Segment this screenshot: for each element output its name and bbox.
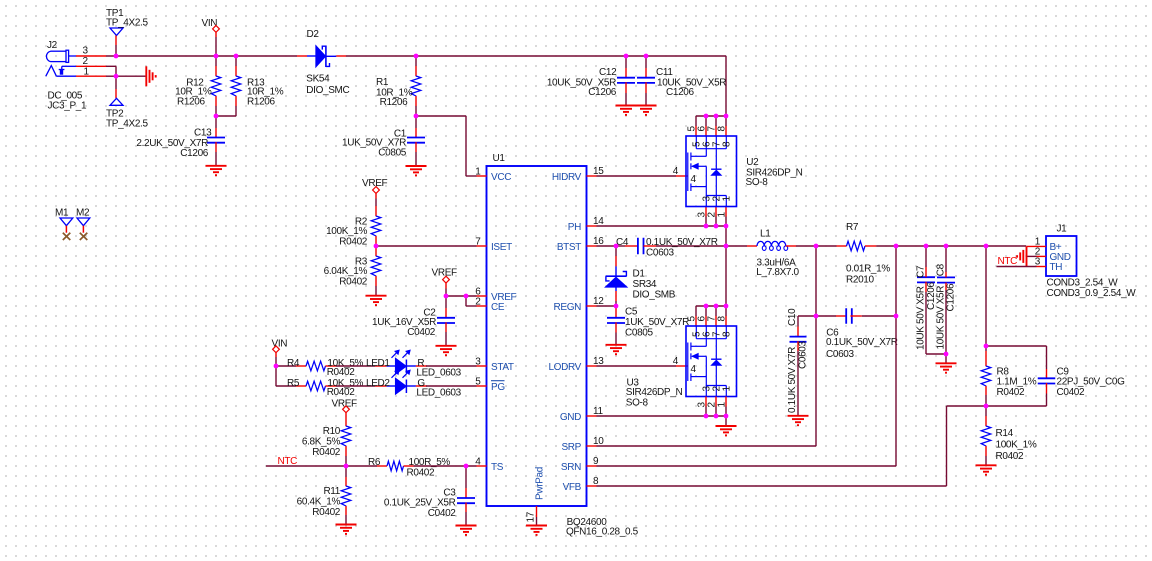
ground (C12) xyxy=(616,105,637,107)
svg-text:4: 4 xyxy=(691,364,697,375)
svg-text:R7: R7 xyxy=(846,222,859,233)
svg-text:PwrPad: PwrPad xyxy=(535,467,546,500)
resistor R6 (100R 5%) xyxy=(368,457,450,479)
resistor R4 (10K 5%) xyxy=(276,358,364,378)
svg-text:SO-8: SO-8 xyxy=(746,177,769,188)
wire VIN rail (D2 to corner) xyxy=(346,55,726,57)
svg-text:C1206: C1206 xyxy=(946,283,957,312)
svg-text:1: 1 xyxy=(475,167,481,178)
svg-text:10: 10 xyxy=(593,436,604,447)
svg-text:11: 11 xyxy=(593,406,603,417)
svg-text:R4: R4 xyxy=(287,358,300,369)
wire ISET xyxy=(376,245,477,247)
svg-text:22PJ_50V_C0G: 22PJ_50V_C0G xyxy=(1057,376,1126,387)
svg-text:R1: R1 xyxy=(376,77,389,88)
wire U3 source pins to GND xyxy=(597,415,727,417)
svg-text:R0402: R0402 xyxy=(312,447,341,458)
svg-text:LED1: LED1 xyxy=(366,358,390,369)
svg-text:DIO_SMC: DIO_SMC xyxy=(306,85,349,96)
U1 pin 3 STAT xyxy=(475,357,514,373)
ground (R11) xyxy=(336,524,357,526)
svg-text:R1206: R1206 xyxy=(380,97,409,108)
U1 pin 15 HIDRV xyxy=(552,166,604,183)
U1 pin 17 PwrPad xyxy=(526,467,546,525)
diode D2 (SK54 schottky) xyxy=(297,29,350,96)
svg-text:C0603: C0603 xyxy=(798,340,809,369)
svg-text:TP_4X2.5: TP_4X2.5 xyxy=(106,118,148,129)
svg-text:L1: L1 xyxy=(760,229,771,240)
wire REGN xyxy=(597,305,617,307)
wire J2 pin 3 stub xyxy=(76,55,106,57)
svg-text:C1206: C1206 xyxy=(180,148,209,159)
svg-text:C12: C12 xyxy=(599,67,617,78)
svg-text:DIO_SMB: DIO_SMB xyxy=(633,289,676,300)
power port VREF (R2) xyxy=(362,178,388,199)
capacitor C11 (10uF) xyxy=(637,56,726,106)
svg-text:C13: C13 xyxy=(194,127,212,138)
svg-text:8: 8 xyxy=(722,141,733,147)
svg-text:C1206: C1206 xyxy=(588,87,617,98)
wire VREF to pin xyxy=(445,289,447,297)
wire VIN rail (J2 to D2) xyxy=(106,55,297,57)
svg-text:0.1UK 50V X7R: 0.1UK 50V X7R xyxy=(787,347,798,413)
svg-text:HIDRV: HIDRV xyxy=(552,172,582,183)
svg-text:100K_1%: 100K_1% xyxy=(996,439,1037,450)
resistor R12 (10R 1%) xyxy=(175,56,221,116)
svg-text:3: 3 xyxy=(1035,256,1041,267)
capacitor C7 (10uF output) xyxy=(916,246,947,354)
wire VIN rail corner down to U2 xyxy=(725,56,727,116)
svg-text:1: 1 xyxy=(721,386,732,392)
resistor R14 (100K 1%) xyxy=(981,406,1037,465)
wire battery divider tap xyxy=(985,246,987,346)
svg-text:QFN16_0.28_0.5: QFN16_0.28_0.5 xyxy=(566,526,639,537)
svg-text:C1206: C1206 xyxy=(666,87,695,98)
wire node to ground spur xyxy=(116,75,146,77)
svg-text:14: 14 xyxy=(593,216,604,227)
U1 pin 16 BTST xyxy=(557,236,604,253)
wire NTC xyxy=(266,465,346,467)
transistor U3 (SIR426DP N-MOSFET) xyxy=(626,316,737,409)
capacitor C1 (1uF) xyxy=(342,116,425,166)
svg-text:15: 15 xyxy=(593,166,604,177)
svg-text:0.1UK_50V_X7R: 0.1UK_50V_X7R xyxy=(826,337,898,348)
capacitor C12 (10uF) xyxy=(547,56,635,106)
wire U2 source pins to PH xyxy=(597,225,727,227)
svg-text:10UK 50V X5R: 10UK 50V X5R xyxy=(916,286,927,350)
U1 pin 4 TS xyxy=(475,457,503,473)
svg-text:2: 2 xyxy=(83,56,89,67)
ground (C5) xyxy=(606,344,627,346)
svg-text:TS: TS xyxy=(491,462,504,473)
U1 pin 14 PH xyxy=(568,216,604,233)
U1 pin 13 LODRV xyxy=(548,356,604,373)
svg-text:PH: PH xyxy=(568,222,581,233)
capacitor C13 (2.2uF) xyxy=(136,116,225,166)
svg-text:VCC: VCC xyxy=(491,172,511,183)
svg-text:C0805: C0805 xyxy=(378,147,407,158)
resistor R11 (60.4K 1%) xyxy=(297,466,351,525)
wire CE branch xyxy=(465,296,467,306)
resistor R5 (10K 5%) xyxy=(276,378,364,398)
capacitor C5 (1uF) xyxy=(607,306,689,345)
wire NTC to R6 xyxy=(346,465,377,467)
svg-text:M1: M1 xyxy=(55,207,69,218)
svg-text:STAT: STAT xyxy=(491,362,514,373)
ground (J1 GND, rotated) xyxy=(1026,246,1028,266)
resistor R2 (100K 1%) xyxy=(326,199,381,248)
svg-text:8: 8 xyxy=(716,316,727,322)
svg-text:R10: R10 xyxy=(323,426,341,437)
svg-text:U1: U1 xyxy=(493,153,506,164)
svg-text:D2: D2 xyxy=(307,29,320,40)
svg-text:SR34: SR34 xyxy=(633,279,657,290)
resistor R13 (10R 1%) xyxy=(231,56,284,116)
svg-text:C0402: C0402 xyxy=(1057,387,1086,398)
ground (C2) xyxy=(436,345,457,347)
U1 pin 10 SRP xyxy=(561,436,604,453)
svg-text:PG: PG xyxy=(491,382,505,393)
J1 pin 3 xyxy=(1035,256,1046,267)
power port VREF (C2) xyxy=(432,268,458,289)
svg-text:CE: CE xyxy=(491,302,505,313)
wire VIN to R4/R5 xyxy=(275,357,277,366)
capacitor C2 (1uF 16V) xyxy=(372,296,455,346)
svg-text:4: 4 xyxy=(673,356,679,367)
wire J2 pin1 to node xyxy=(106,75,116,77)
svg-text:GND: GND xyxy=(560,412,581,423)
svg-text:NTC: NTC xyxy=(998,256,1018,267)
svg-text:M2: M2 xyxy=(76,207,90,218)
LED LED2 (green) xyxy=(366,370,462,398)
svg-text:R0402: R0402 xyxy=(339,236,368,247)
svg-text:L_7.8X7.0: L_7.8X7.0 xyxy=(756,267,799,278)
svg-text:9: 9 xyxy=(593,456,599,467)
svg-text:TP_4X2.5: TP_4X2.5 xyxy=(106,17,148,28)
svg-text:R0402: R0402 xyxy=(339,276,368,287)
svg-text:R11: R11 xyxy=(323,486,340,497)
U1 pin 5 PG xyxy=(475,377,505,393)
svg-text:VREF: VREF xyxy=(432,268,458,279)
svg-text:4: 4 xyxy=(691,174,697,185)
svg-text:3: 3 xyxy=(83,45,89,56)
svg-text:LED_0603: LED_0603 xyxy=(416,388,461,399)
svg-text:SO-8: SO-8 xyxy=(626,397,649,408)
svg-text:1: 1 xyxy=(716,212,727,218)
svg-text:R0402: R0402 xyxy=(997,387,1026,398)
power port VIN xyxy=(202,18,220,37)
ground (U3 source) xyxy=(716,425,737,427)
svg-text:D1: D1 xyxy=(633,268,646,279)
svg-text:C0603: C0603 xyxy=(646,247,675,258)
U1 pin 9 SRN xyxy=(561,456,599,473)
ground (C13) xyxy=(206,165,227,167)
U1 pin 8 VFB xyxy=(563,476,599,493)
resistor R8 (1.1M 1%) xyxy=(981,346,1037,406)
svg-text:1.1M_1%: 1.1M_1% xyxy=(997,376,1037,387)
svg-text:R14: R14 xyxy=(996,428,1014,439)
svg-text:6.8K_5%: 6.8K_5% xyxy=(302,436,341,447)
connector J1 (battery COND3) xyxy=(1046,223,1136,298)
svg-text:COND3_0.9_2.54_W: COND3_0.9_2.54_W xyxy=(1047,288,1137,299)
wire STAT xyxy=(426,365,477,367)
wire SRN vertical xyxy=(895,246,897,466)
power port VREF (R10) xyxy=(332,398,358,416)
wire GND spur xyxy=(725,416,727,426)
svg-text:8: 8 xyxy=(716,126,727,132)
wire VIN port down xyxy=(215,37,217,56)
wire HIDRV xyxy=(597,175,677,177)
wire node down to TP2 xyxy=(115,76,117,89)
wire SRN xyxy=(597,465,897,467)
J1 pin 1 xyxy=(1027,236,1047,247)
ground (R3) xyxy=(366,295,387,297)
svg-text:SK54: SK54 xyxy=(306,74,330,85)
svg-text:SRP: SRP xyxy=(561,442,581,453)
svg-text:R1206: R1206 xyxy=(177,97,206,108)
svg-text:R5: R5 xyxy=(287,378,300,389)
svg-text:R1206: R1206 xyxy=(247,97,276,108)
ground (C11) xyxy=(636,105,657,107)
svg-text:C7: C7 xyxy=(916,265,927,278)
svg-text:12: 12 xyxy=(593,296,604,307)
inductor L1 (3.3uH) xyxy=(726,229,816,279)
svg-text:R6: R6 xyxy=(368,457,381,468)
ground (R14) xyxy=(976,464,997,466)
svg-text:R0402: R0402 xyxy=(996,451,1025,462)
wire VFB vertical xyxy=(946,406,948,486)
svg-text:R0402: R0402 xyxy=(312,507,341,518)
svg-text:17: 17 xyxy=(526,511,537,522)
ground (J2 return, rotated) xyxy=(145,66,147,86)
svg-text:0.1UK_25V_X5R: 0.1UK_25V_X5R xyxy=(384,497,456,508)
U1 pin 12 REGN xyxy=(554,296,605,313)
wire R5 to LED2 xyxy=(336,385,375,387)
svg-text:C10: C10 xyxy=(787,308,798,326)
svg-text:NTC: NTC xyxy=(278,456,298,467)
U1 pin 6 VREF xyxy=(475,287,516,303)
svg-text:C8: C8 xyxy=(936,263,947,276)
svg-text:R0402: R0402 xyxy=(327,367,356,378)
wire TH xyxy=(997,266,1037,268)
svg-text:R2010: R2010 xyxy=(846,274,875,285)
connector J2 (DC_005 barrel jack) xyxy=(46,40,90,112)
svg-text:6.04K_1%: 6.04K_1% xyxy=(324,266,368,277)
wire J2 pin2 to node xyxy=(106,65,116,67)
wire VFB xyxy=(597,485,947,487)
ground (C1) xyxy=(406,165,427,167)
LED LED1 (red) xyxy=(366,350,462,378)
U1 pin 11 GND xyxy=(560,406,604,423)
wire J2 pin 2 stub xyxy=(76,65,106,67)
U1 pin 1 VCC xyxy=(475,167,511,183)
wire TP1 to VIN rail xyxy=(115,36,117,46)
mount point M2 xyxy=(76,207,90,240)
capacitor C8 (10uF output) xyxy=(936,246,957,363)
svg-text:13: 13 xyxy=(593,356,604,367)
svg-text:ISET: ISET xyxy=(491,242,512,253)
test point TP2 xyxy=(106,98,148,129)
svg-text:16: 16 xyxy=(593,236,604,247)
svg-text:R0402: R0402 xyxy=(327,387,356,398)
wire U2 drain pins to VIN rail xyxy=(696,115,726,117)
ground (C7/C8) xyxy=(936,362,957,364)
svg-text:1: 1 xyxy=(721,196,732,202)
resistor R1 (10R 1%) xyxy=(376,56,421,116)
wire U3 drain pins xyxy=(696,305,726,307)
U1 pin 7 ISET xyxy=(475,237,512,253)
resistor R10 (6.8K 5%) xyxy=(302,416,351,466)
svg-text:0.1UK_50V_X7R: 0.1UK_50V_X7R xyxy=(646,237,718,248)
svg-text:C0402: C0402 xyxy=(428,508,457,519)
svg-text:J2: J2 xyxy=(47,40,58,51)
svg-text:SRN: SRN xyxy=(561,462,581,473)
ground (C3) xyxy=(456,525,477,527)
svg-text:J1: J1 xyxy=(1057,223,1068,234)
wire SRP vertical xyxy=(815,246,817,446)
wire R1 node to VCC pin xyxy=(416,115,466,117)
wire PH node vertical xyxy=(725,226,727,306)
J1 pin 2 xyxy=(1027,246,1046,257)
svg-text:LED2: LED2 xyxy=(366,378,390,389)
svg-text:8: 8 xyxy=(593,476,599,487)
wire J2 pin 1 stub xyxy=(76,75,106,77)
U1 pin 2 CE xyxy=(475,297,505,313)
wire TS xyxy=(414,465,477,467)
svg-text:COND3_2.54_W: COND3_2.54_W xyxy=(1047,277,1119,288)
svg-text:BTST: BTST xyxy=(557,242,581,253)
svg-text:LODRV: LODRV xyxy=(548,362,581,373)
svg-text:SIR426DP_N: SIR426DP_N xyxy=(626,387,683,398)
wire R4 to LED1 xyxy=(336,365,375,367)
svg-text:C0805: C0805 xyxy=(625,327,654,338)
wire SRP xyxy=(597,445,817,447)
capacitor C6 (0.1uF sense filter) xyxy=(816,308,898,360)
ground (C10) xyxy=(788,415,809,417)
svg-text:4: 4 xyxy=(673,166,679,177)
svg-text:60.4K_1%: 60.4K_1% xyxy=(297,496,341,507)
capacitor C9 (22pF) xyxy=(986,346,1125,406)
transistor U2 (SIR426DP N-MOSFET) xyxy=(673,126,803,218)
svg-text:C0603: C0603 xyxy=(826,349,855,360)
U1 part labels xyxy=(566,517,639,537)
svg-text:TH: TH xyxy=(1050,262,1063,273)
svg-text:100K_1%: 100K_1% xyxy=(326,226,367,237)
svg-text:C5: C5 xyxy=(625,306,638,317)
capacitor C3 (0.1uF 25V) xyxy=(384,466,475,526)
resistor R7 (0.01R sense) xyxy=(816,222,890,285)
svg-text:VFB: VFB xyxy=(563,482,582,493)
wire LODRV xyxy=(597,365,677,367)
mount point M1 xyxy=(55,207,73,240)
svg-text:REGN: REGN xyxy=(554,302,582,313)
svg-text:0.01R_1%: 0.01R_1% xyxy=(846,263,890,274)
IC U1 BQ24600 xyxy=(487,153,587,506)
svg-text:R0402: R0402 xyxy=(407,467,436,478)
wire R7 to battery node xyxy=(876,245,1026,247)
svg-text:8: 8 xyxy=(722,331,733,337)
wire R12/R13 bottoms xyxy=(216,115,236,117)
capacitor C4 (0.1uF bootstrap) xyxy=(616,237,726,258)
capacitor C10 (0.1uF) xyxy=(787,308,816,416)
test point TP1 xyxy=(106,8,148,36)
wire BTST xyxy=(597,245,617,247)
svg-text:C0402: C0402 xyxy=(407,327,436,338)
resistor R3 (6.04K 1%) xyxy=(324,246,381,296)
svg-text:JC3_P_1: JC3_P_1 xyxy=(48,100,87,111)
power port VIN (LEDs) xyxy=(272,338,288,357)
svg-text:C11: C11 xyxy=(656,67,673,78)
diode D1 (SR34 schottky) xyxy=(606,246,676,306)
wire PG xyxy=(426,385,477,387)
ground (PwrPad) xyxy=(526,525,547,527)
svg-text:1UK_50V_X7R: 1UK_50V_X7R xyxy=(625,317,689,328)
